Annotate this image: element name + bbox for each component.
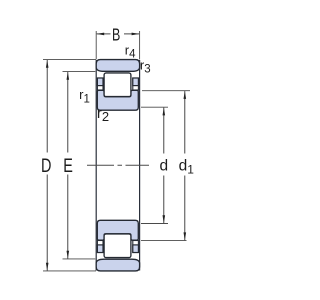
E extension line top bbox=[63, 71, 96, 73]
d arrow top bbox=[163, 108, 166, 116]
d1 dimension line bbox=[184, 91, 186, 153]
d extension line top bbox=[141, 106, 168, 108]
centerline axis bbox=[87, 164, 149, 166]
svg-text:d: d bbox=[160, 158, 169, 175]
d1 extension line top bbox=[142, 90, 190, 92]
D arrow top bbox=[46, 60, 49, 68]
inner ring bottom section (with flanges) bbox=[97, 220, 138, 240]
D dimension line bbox=[46, 60, 48, 153]
E arrow top bbox=[67, 72, 70, 80]
roller bottom section bbox=[104, 234, 131, 258]
B extension line left bbox=[95, 31, 97, 59]
svg-text:D: D bbox=[41, 155, 51, 176]
bearing side face silhouette right bbox=[139, 60, 141, 271]
B extension line right bbox=[139, 31, 141, 59]
cage bar top-right bbox=[133, 78, 139, 86]
B arrow right bbox=[132, 33, 140, 36]
E dimension line bbox=[67, 72, 69, 153]
d extension line bottom bbox=[141, 223, 168, 225]
outer ring bottom section bbox=[96, 259, 139, 271]
d arrow bottom bbox=[163, 215, 166, 223]
cage pocket top-left bbox=[97, 78, 103, 90]
D extension line top bbox=[43, 59, 96, 61]
E arrow bottom bbox=[67, 251, 70, 259]
svg-text:B: B bbox=[112, 25, 120, 45]
svg-text:E: E bbox=[63, 155, 73, 176]
d1 arrow bottom bbox=[184, 232, 187, 240]
cage bar bottom-left bbox=[97, 245, 103, 253]
roller top section bbox=[104, 73, 131, 97]
d dimension line bbox=[163, 108, 165, 154]
cage bar bottom-right bbox=[133, 245, 139, 253]
inner ring top section (with flanges) bbox=[97, 90, 138, 110]
cage pocket bottom-left bbox=[97, 241, 103, 253]
D extension line bottom bbox=[43, 270, 96, 272]
d1 extension line bottom bbox=[141, 240, 187, 242]
bearing side face silhouette left bbox=[95, 60, 97, 271]
cage pocket top-right bbox=[133, 78, 139, 90]
cage bar top-left bbox=[97, 78, 103, 86]
outer ring top section bbox=[96, 60, 139, 72]
B dimension line bbox=[97, 33, 111, 35]
d1 arrow top bbox=[184, 91, 187, 99]
D arrow bottom bbox=[46, 263, 49, 271]
B arrow left bbox=[96, 33, 104, 36]
cage pocket bottom-right bbox=[133, 241, 139, 253]
E extension line bottom bbox=[63, 258, 96, 260]
